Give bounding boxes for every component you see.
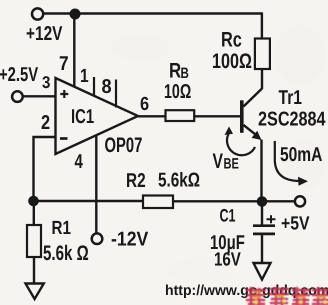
label VBE	[213, 150, 239, 173]
resistor R1	[27, 225, 41, 257]
wire: inverting input pin 2	[34, 137, 57, 201]
pin stub 8	[115, 80, 117, 108]
svg-text:7: 7	[59, 53, 69, 75]
wire: right rail vertical down to Rc	[261, 12, 263, 38]
transistor Tr1 emitter diagonal with arrow	[244, 125, 262, 140]
svg-text:16V: 16V	[214, 250, 241, 271]
wire: pin4 down to -12V	[95, 136, 97, 233]
pin number 4	[75, 151, 84, 173]
terminal +5V	[295, 196, 305, 206]
label 5.6k ohm R2	[158, 170, 200, 192]
label Rc	[221, 29, 242, 52]
node: junction dot emitter output	[257, 196, 268, 207]
label 50mA	[280, 144, 322, 166]
ground below C1	[254, 263, 271, 280]
arrow 50mA current	[275, 141, 308, 186]
svg-text:4: 4	[75, 151, 84, 173]
wire: R2 to output node	[173, 200, 295, 202]
wire: junction down to R1	[33, 201, 35, 225]
ground below R1	[26, 284, 44, 300]
svg-text:5.6kΩ: 5.6kΩ	[158, 170, 200, 192]
svg-text:50mA: 50mA	[280, 144, 322, 166]
label RB	[169, 60, 189, 83]
label +12V	[26, 23, 63, 45]
pin number 3	[42, 73, 50, 92]
svg-text:C1: C1	[220, 206, 236, 226]
svg-text:-12V: -12V	[111, 229, 149, 251]
svg-text:1: 1	[80, 66, 89, 87]
pin number 7	[59, 53, 69, 75]
label OP07	[105, 134, 143, 157]
svg-text:BE: BE	[224, 156, 239, 173]
svg-text:2SC2884: 2SC2884	[258, 109, 326, 131]
svg-text:+2.5V: +2.5V	[0, 64, 39, 86]
label 16V	[214, 250, 241, 271]
label 5.6k ohm R1	[43, 242, 89, 265]
wire: +12V rail top horizontal	[44, 12, 262, 14]
arrow VBE curved	[225, 127, 256, 156]
pin number 8	[102, 76, 112, 98]
node: junction dot inverting input	[28, 196, 39, 207]
resistor Rc	[255, 39, 270, 70]
label 10uF	[210, 232, 245, 254]
svg-text:+5V: +5V	[281, 214, 310, 235]
svg-text:OP07: OP07	[105, 134, 143, 157]
svg-text:100Ω: 100Ω	[212, 50, 252, 73]
capacitor C1 plates	[253, 226, 275, 234]
label 100 ohm	[212, 50, 252, 73]
svg-text:R2: R2	[126, 170, 146, 192]
svg-text:10Ω: 10Ω	[164, 81, 191, 103]
label IC1	[71, 106, 94, 128]
pin number 6	[140, 94, 149, 115]
label C1	[220, 206, 236, 226]
wire: RB to transistor base	[194, 115, 240, 117]
pin number 2	[41, 112, 50, 134]
svg-text:V: V	[213, 150, 224, 173]
watermark url text	[165, 283, 328, 299]
wire: pin7 vertical from rail to op-amp	[73, 14, 75, 87]
svg-text:5.6k Ω: 5.6k Ω	[43, 242, 89, 265]
svg-text:Rc: Rc	[221, 29, 242, 52]
svg-text:3: 3	[42, 73, 50, 92]
label -12V	[111, 229, 149, 251]
op-amp plus input symbol	[60, 90, 68, 98]
op-amp minus input symbol	[60, 137, 68, 140]
wire: emitter down to output node	[260, 140, 262, 202]
resistor R2	[143, 196, 173, 209]
op-amp IC1 triangle	[56, 78, 139, 154]
wire: C1 to ground	[261, 235, 263, 264]
svg-text:B: B	[181, 65, 190, 82]
node: junction dot on +12V rail	[70, 9, 81, 20]
terminal -12V	[92, 233, 103, 244]
svg-text:Tr1: Tr1	[279, 87, 303, 109]
svg-text:8: 8	[102, 76, 112, 98]
wire: feedback rail R2 row	[34, 200, 144, 202]
wire: output node down to C1	[261, 202, 263, 225]
transistor Tr1 base bar	[240, 100, 244, 133]
terminal +12V	[32, 8, 43, 19]
svg-text:IC1: IC1	[71, 106, 94, 128]
label Tr1	[279, 87, 303, 109]
label R2	[126, 170, 146, 192]
svg-text:2: 2	[41, 112, 50, 134]
pin number 1	[80, 66, 89, 87]
transistor Tr1 collector diagonal	[244, 89, 263, 107]
label +5V	[281, 214, 310, 235]
label R1	[52, 218, 72, 239]
wire: non-inverting input pin 3	[24, 95, 57, 97]
svg-text:R: R	[169, 60, 181, 83]
pin stub 1	[93, 77, 95, 96]
wire: R1 to ground	[33, 257, 35, 284]
svg-text:R1: R1	[52, 218, 72, 239]
resistor RB	[166, 110, 195, 121]
terminal +2.5V	[12, 91, 23, 102]
label 2SC2884	[258, 109, 326, 131]
svg-text:6: 6	[140, 94, 149, 115]
wire: Rc bottom to collector	[261, 69, 263, 89]
label 10 ohm	[164, 81, 191, 103]
svg-text:+12V: +12V	[26, 23, 63, 45]
label +2.5V	[0, 64, 39, 86]
wire: op-amp output to RB	[138, 115, 166, 117]
capacitor C1 polarity plus	[267, 215, 276, 223]
